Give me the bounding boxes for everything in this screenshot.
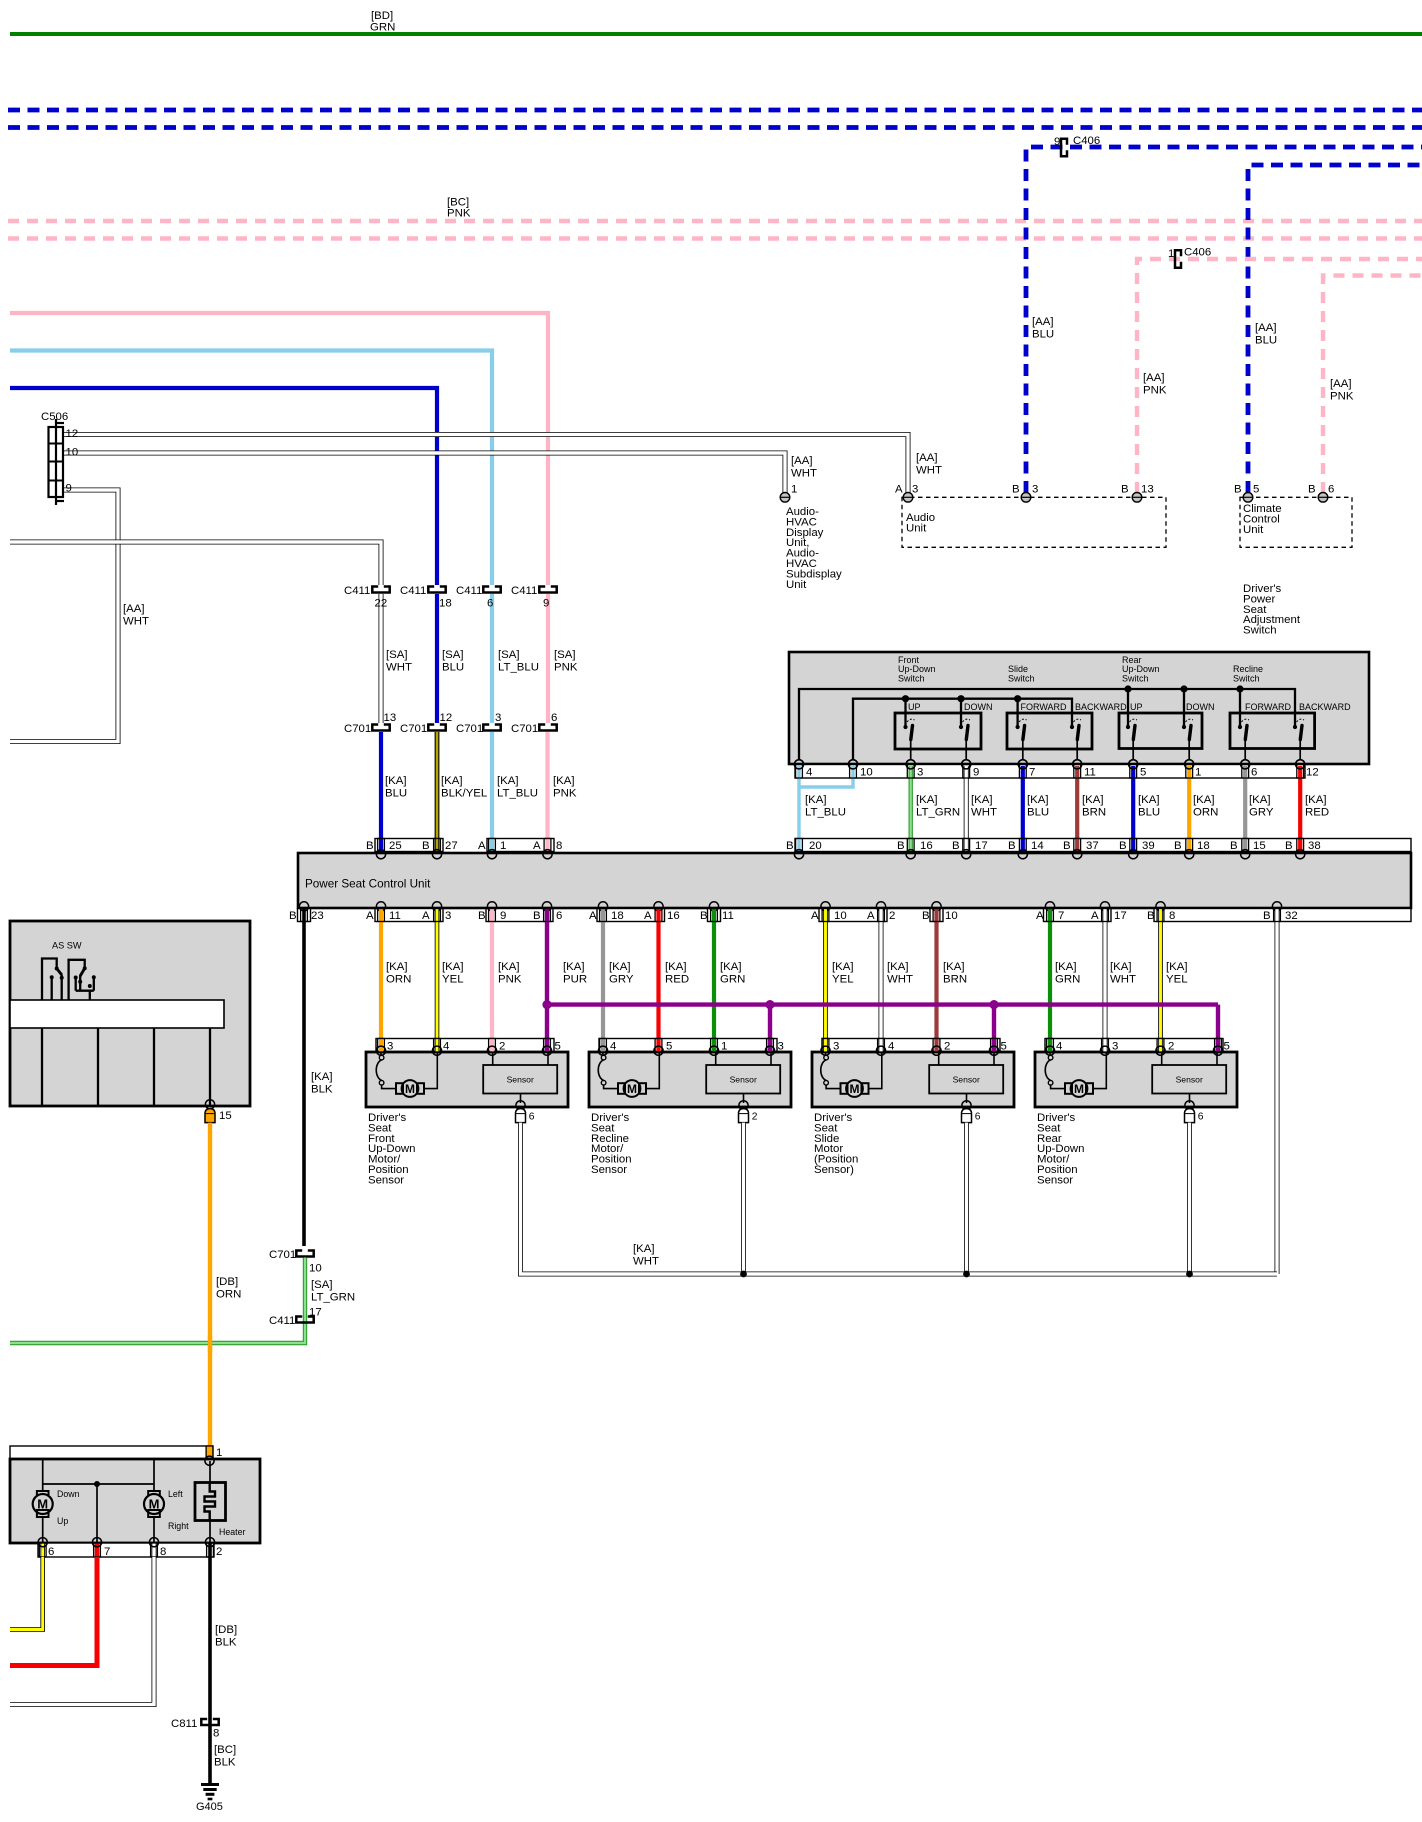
wire [KA] WHT A2 to motor3 pin 4 [879, 909, 884, 1053]
svg-text:3: 3 [495, 712, 501, 724]
svg-text:B: B [422, 840, 430, 852]
svg-text:6: 6 [551, 712, 557, 724]
switch sub-box slide [1007, 713, 1092, 749]
wire PNK solid feed from left [10, 313, 548, 585]
svg-text:Unit: Unit [906, 523, 927, 535]
svg-text:Switch: Switch [1233, 673, 1260, 683]
wire [KA] WHT A17 to motor4 pin 3 [1103, 909, 1108, 1053]
svg-text:4: 4 [443, 1041, 449, 1053]
svg-text:C406: C406 [1073, 135, 1100, 147]
svg-text:[KA]: [KA] [497, 775, 519, 787]
svg-text:B: B [289, 910, 297, 922]
svg-text:[AA]: [AA] [1330, 378, 1352, 390]
svg-text:G405: G405 [196, 1801, 223, 1813]
svg-text:A: A [589, 910, 597, 922]
svg-text:[AA]: [AA] [916, 452, 938, 464]
svg-text:6: 6 [529, 1112, 535, 1123]
switch sub-box recline [1230, 713, 1315, 749]
box Driver's Power Seat Adjustment Switch [789, 652, 1369, 764]
wire [SA] BLU C411-18 to C701-12 [435, 594, 439, 723]
PSCU bottom pin slots [301, 909, 1281, 922]
svg-text:8: 8 [556, 840, 562, 852]
wire RED pin7 to left [10, 1557, 97, 1666]
svg-text:C701: C701 [400, 723, 427, 735]
svg-text:BLU: BLU [1032, 328, 1054, 340]
svg-text:WHT: WHT [916, 464, 942, 476]
svg-text:1: 1 [1168, 248, 1174, 260]
svg-text:B: B [952, 840, 960, 852]
box AS SW [10, 921, 250, 1106]
svg-text:BLK: BLK [311, 1083, 333, 1095]
svg-text:FORWARD: FORWARD [1021, 702, 1067, 712]
svg-text:BLU: BLU [442, 661, 464, 673]
svg-text:2: 2 [216, 1546, 222, 1558]
svg-text:ORN: ORN [216, 1288, 241, 1300]
svg-text:YEL: YEL [832, 973, 854, 985]
svg-text:C701: C701 [344, 723, 371, 735]
svg-text:B: B [478, 910, 486, 922]
connector C701 pin 6 [539, 725, 556, 731]
svg-text:LT_BLU: LT_BLU [498, 661, 539, 673]
svg-text:C411: C411 [400, 585, 426, 597]
svg-text:9: 9 [543, 598, 549, 610]
svg-text:B: B [1121, 484, 1129, 496]
svg-text:7: 7 [1029, 767, 1035, 779]
wire [AA] BLU dashed branch to audio unit B3 [1026, 147, 1422, 493]
svg-text:B: B [1263, 910, 1271, 922]
svg-text:BLU: BLU [1255, 334, 1277, 346]
wire [KA] PNK C701-6 to PSCU A8 [545, 732, 549, 850]
svg-text:Sensor: Sensor [1037, 1174, 1073, 1186]
svg-text:20: 20 [809, 840, 822, 852]
wire [SA] WHT C411-22 to C701-13 [379, 594, 384, 723]
svg-text:Unit: Unit [1243, 524, 1264, 536]
svg-text:[KA]: [KA] [1305, 794, 1327, 806]
connector C411 pin 22 [372, 587, 389, 593]
wire WHT pin8 to left [10, 1557, 154, 1705]
svg-text:38: 38 [1308, 840, 1321, 852]
svg-text:[BC]: [BC] [214, 1744, 236, 1756]
connector C701 pin 3 [483, 725, 500, 731]
svg-text:3: 3 [778, 1041, 784, 1053]
svg-text:2: 2 [752, 1112, 758, 1123]
svg-text:WHT: WHT [123, 615, 149, 627]
svg-text:B: B [1234, 484, 1242, 496]
svg-text:A: A [895, 484, 903, 496]
pin slots and numbers box 3 [821, 1039, 1007, 1056]
wire [KA] BLK B23 down [302, 909, 306, 1247]
svg-text:[KA]: [KA] [1166, 961, 1188, 973]
svg-text:17: 17 [1114, 910, 1127, 922]
svg-text:37: 37 [1086, 840, 1099, 852]
svg-text:C506: C506 [41, 411, 68, 423]
junction dots bus1 [1124, 685, 1131, 692]
wire [KA] YEL B8 to motor4 pin 2 [1158, 909, 1163, 1053]
wire internal bus pin4 to rear/recline commons [799, 689, 1295, 759]
pin B5 climate unit [1243, 493, 1253, 503]
wire BLU solid feed from left [10, 388, 437, 585]
svg-text:ORN: ORN [386, 973, 411, 985]
svg-text:5: 5 [1001, 1041, 1007, 1053]
svg-text:B: B [1308, 484, 1316, 496]
svg-text:C411: C411 [269, 1315, 295, 1327]
wire ORN crossing [208, 1335, 212, 1352]
heated seat internal wiring [43, 1459, 210, 1543]
svg-text:Left: Left [168, 1489, 183, 1499]
purple junction dots [542, 1000, 551, 1009]
connector C411 pin 6 [483, 587, 500, 593]
connector C701 pin 13 [372, 725, 389, 731]
svg-text:3: 3 [387, 1041, 393, 1053]
recline FORWARD switch [1238, 689, 1250, 769]
wire [AA] PNK dashed branch to audio unit B13 [1137, 259, 1422, 493]
svg-text:1: 1 [791, 484, 797, 496]
svg-text:12: 12 [1306, 767, 1319, 779]
junction dots bus2 [902, 695, 909, 702]
svg-text:6: 6 [48, 1546, 54, 1558]
svg-text:[KA]: [KA] [971, 794, 993, 806]
wire [KA] GRN B11 to motor2 pin 1 [712, 909, 716, 1053]
wire [KA] RED pin12 to B38 [1298, 766, 1302, 851]
pin slots and numbers box 1 [376, 1039, 560, 1056]
svg-text:[KA]: [KA] [609, 961, 631, 973]
rear DOWN switch [1182, 689, 1194, 769]
motor symbol box 4 [1045, 1050, 1106, 1097]
svg-text:B: B [1147, 910, 1155, 922]
svg-text:[BD]: [BD] [371, 10, 393, 22]
svg-text:[KA]: [KA] [441, 775, 463, 787]
svg-text:WHT: WHT [791, 467, 817, 479]
svg-text:1: 1 [216, 1447, 222, 1459]
svg-text:[SA]: [SA] [554, 649, 576, 661]
svg-text:12: 12 [440, 712, 453, 724]
wire [DB] BLK pin2 to ground [208, 1557, 212, 1783]
svg-text:39: 39 [1142, 840, 1155, 852]
svg-text:8: 8 [213, 1728, 219, 1740]
svg-text:8: 8 [160, 1546, 166, 1558]
svg-text:GRN: GRN [1055, 973, 1080, 985]
svg-text:[KA]: [KA] [311, 1071, 333, 1083]
svg-text:17: 17 [975, 840, 988, 852]
svg-text:[KA]: [KA] [1055, 961, 1077, 973]
svg-text:PNK: PNK [553, 787, 577, 799]
svg-text:[KA]: [KA] [805, 794, 827, 806]
svg-text:ORN: ORN [1193, 806, 1218, 818]
svg-text:7: 7 [104, 1546, 110, 1558]
svg-text:11: 11 [1084, 767, 1096, 779]
wire [KA] GRY A18 to motor2 pin 4 [601, 909, 605, 1053]
svg-text:Switch: Switch [898, 673, 925, 683]
heater element [195, 1483, 226, 1521]
wire [KA] RED A16 to motor2 pin 5 [656, 909, 660, 1053]
svg-text:B: B [1119, 840, 1127, 852]
svg-text:[AA]: [AA] [1143, 372, 1165, 384]
svg-text:Switch: Switch [1122, 673, 1149, 683]
svg-text:[AA]: [AA] [1255, 322, 1277, 334]
svg-text:15: 15 [1253, 840, 1266, 852]
pin B6 climate unit [1318, 493, 1328, 503]
svg-text:[KA]: [KA] [1193, 794, 1215, 806]
svg-text:3: 3 [445, 910, 451, 922]
svg-text:M: M [405, 1082, 415, 1096]
svg-text:FORWARD: FORWARD [1245, 702, 1291, 712]
wire [KA] BLU pin7 to B14 [1021, 766, 1025, 851]
svg-text:[KA]: [KA] [720, 961, 742, 973]
svg-text:14: 14 [1031, 840, 1044, 852]
wire [KA] WHT sensor returns bus [521, 1123, 1278, 1274]
svg-text:5: 5 [1253, 484, 1259, 496]
svg-text:Sensor: Sensor [591, 1164, 627, 1176]
svg-text:15: 15 [219, 1110, 232, 1122]
svg-text:18: 18 [439, 598, 452, 610]
svg-text:Sensor: Sensor [1176, 1075, 1203, 1085]
svg-text:GRY: GRY [609, 973, 634, 985]
svg-text:C406: C406 [1184, 247, 1211, 259]
svg-text:4: 4 [888, 1041, 894, 1053]
white wire C506 pin 12 to audio A3 [63, 435, 908, 493]
sensor box 3 [929, 1050, 1003, 1123]
junction dots white bus [740, 1271, 747, 1278]
svg-text:8: 8 [1169, 910, 1175, 922]
heated seat top connector strip [10, 1446, 213, 1459]
wire [KA] BRN pin11 to B37 [1075, 766, 1079, 851]
box Power Seat Control Unit [298, 853, 1411, 908]
PSCU bottom pin circles [299, 902, 1281, 911]
svg-text:B: B [1012, 484, 1020, 496]
svg-text:PNK: PNK [554, 661, 578, 673]
svg-text:10: 10 [945, 910, 958, 922]
wires through PSCU top housings [379, 839, 383, 852]
svg-text:1: 1 [500, 840, 506, 852]
svg-text:B: B [366, 840, 374, 852]
svg-text:B: B [533, 910, 541, 922]
front DOWN switch [959, 699, 971, 769]
wire [KA] WHT B32 to white bus [1275, 909, 1280, 1275]
svg-text:27: 27 [445, 840, 458, 852]
wire [KA] ORN pin1 to B18 [1187, 766, 1191, 851]
svg-text:17: 17 [309, 1307, 322, 1319]
svg-text:Up: Up [57, 1516, 68, 1526]
svg-text:PUR: PUR [563, 973, 587, 985]
svg-text:PNK: PNK [447, 208, 471, 220]
switch strip pin circles redraw [794, 760, 1304, 769]
svg-text:4: 4 [806, 767, 812, 779]
svg-text:B: B [1230, 840, 1238, 852]
switch connector strip [795, 765, 1305, 779]
svg-text:[SA]: [SA] [386, 649, 408, 661]
svg-text:GRN: GRN [720, 973, 745, 985]
pin slots and numbers box 2 [598, 1039, 783, 1056]
svg-text:4: 4 [610, 1041, 616, 1053]
slide FORWARD switch [1016, 699, 1028, 769]
ground G405 [201, 1785, 219, 1800]
wire internal bus pin10 to front/slide commons [853, 699, 1072, 759]
bottom pin slots [39, 1543, 46, 1557]
wire [KA] BLK/YEL C701-12 to PSCU B27 [435, 732, 440, 850]
svg-text:16: 16 [920, 840, 933, 852]
svg-text:6: 6 [1198, 1112, 1204, 1123]
wire [KA] PNK B9 to sensor pin 2 [490, 909, 494, 1053]
wire [BD] GRN horizontal trunk [10, 32, 1422, 36]
svg-text:B: B [1174, 840, 1182, 852]
svg-text:[AA]: [AA] [123, 603, 145, 615]
svg-text:10: 10 [66, 447, 79, 459]
pin A3 audio unit [903, 493, 913, 503]
svg-text:A: A [422, 910, 430, 922]
svg-text:9: 9 [66, 483, 72, 495]
wire [BC] PNK dashed trunk 1 [8, 219, 1422, 223]
svg-text:[KA]: [KA] [665, 961, 687, 973]
svg-text:LT_GRN: LT_GRN [916, 806, 960, 818]
svg-text:BRN: BRN [943, 973, 967, 985]
svg-text:BLK/YEL: BLK/YEL [441, 787, 487, 799]
svg-text:Heater: Heater [219, 1527, 245, 1537]
wire [KA] PUR B6 to purple bus [545, 909, 549, 1053]
svg-text:LT_GRN: LT_GRN [311, 1291, 355, 1303]
svg-text:32: 32 [1285, 910, 1298, 922]
svg-text:Unit: Unit [786, 579, 807, 591]
svg-text:1: 1 [1195, 767, 1201, 779]
svg-text:LT_BLU: LT_BLU [497, 787, 538, 799]
svg-text:PNK: PNK [1330, 390, 1354, 402]
connector C406 pin 9 [1061, 139, 1067, 156]
svg-text:9: 9 [973, 767, 979, 779]
svg-text:6: 6 [975, 1112, 981, 1123]
svg-text:25: 25 [389, 840, 402, 852]
svg-text:A: A [1036, 910, 1044, 922]
svg-text:C811: C811 [171, 1718, 197, 1730]
svg-text:GRN: GRN [370, 22, 395, 34]
svg-text:[KA]: [KA] [832, 961, 854, 973]
svg-text:6: 6 [1328, 484, 1334, 496]
svg-text:22: 22 [375, 598, 388, 610]
pin B3 audio unit [1021, 493, 1031, 503]
unit Audio-HVAC Display pin 1 [780, 493, 790, 503]
svg-text:Sensor: Sensor [368, 1174, 404, 1186]
svg-text:BLK: BLK [215, 1636, 237, 1648]
svg-text:B: B [786, 840, 794, 852]
pin 15 cylinder [205, 1109, 215, 1123]
svg-text:Switch: Switch [1243, 625, 1277, 637]
svg-text:C411: C411 [456, 585, 482, 597]
wire [KA] LT_BLU C701-3 to PSCU A1 [490, 732, 494, 850]
svg-text:23: 23 [311, 910, 324, 922]
svg-text:PNK: PNK [1143, 384, 1167, 396]
svg-text:M: M [850, 1082, 860, 1096]
pin 1 slot [206, 1446, 213, 1459]
svg-text:[KA]: [KA] [633, 1243, 655, 1255]
connector C406 pin 1 [1175, 250, 1181, 267]
wire YEL pin6 to left [10, 1557, 43, 1630]
svg-text:6: 6 [556, 910, 562, 922]
connector C411 pin 17 [296, 1317, 313, 1323]
slide BACKWARD switch [1070, 719, 1082, 769]
svg-text:[KA]: [KA] [1082, 794, 1104, 806]
svg-text:2: 2 [944, 1041, 950, 1053]
svg-text:B: B [1008, 840, 1016, 852]
svg-text:A: A [644, 910, 652, 922]
connector C411 pin 9 [539, 587, 556, 593]
svg-text:A: A [533, 840, 541, 852]
svg-text:A: A [478, 840, 486, 852]
motor unit box 1 [376, 1039, 554, 1053]
svg-text:C701: C701 [269, 1249, 296, 1261]
svg-text:B: B [922, 910, 930, 922]
svg-text:A: A [867, 910, 875, 922]
svg-text:Power Seat Control Unit: Power Seat Control Unit [305, 878, 431, 891]
svg-text:2: 2 [889, 910, 895, 922]
svg-text:10: 10 [860, 767, 873, 779]
svg-text:18: 18 [1197, 840, 1210, 852]
wire [DB] ORN pin15 to heated seat pin 1 [208, 1123, 212, 1446]
svg-text:Sensor: Sensor [507, 1075, 534, 1085]
wire [AA] PNK dashed branch to climate unit B6 [1323, 276, 1422, 494]
svg-text:C411: C411 [511, 585, 537, 597]
svg-text:B: B [1063, 840, 1071, 852]
pin 1 circle [205, 1456, 214, 1465]
wire [AA] BLU dashed branch to climate unit B5 [1248, 165, 1422, 493]
svg-text:PNK: PNK [498, 973, 522, 985]
heated seat bottom strip [38, 1543, 214, 1557]
white wire C506 pin 10 to display unit pin 1 [63, 453, 785, 493]
box Audio Unit (dashed) [902, 497, 1166, 547]
PSCU top connector housings [375, 839, 1411, 852]
wire [KA] WHT pin9 to B17 [964, 766, 969, 851]
svg-text:UP: UP [908, 702, 921, 712]
PSCU top pin slots [378, 839, 1304, 852]
purple bus B6 to motor pins 5/3/5/5 [547, 1002, 1218, 1006]
svg-text:[KA]: [KA] [563, 961, 585, 973]
motor unit box 3 [822, 1039, 1000, 1053]
svg-text:[KA]: [KA] [916, 794, 938, 806]
svg-text:BLU: BLU [1027, 806, 1049, 818]
pin B13 audio unit [1132, 493, 1142, 503]
white wire [AA] WHT from left to C411 22 [10, 542, 381, 585]
recline BACKWARD switch [1293, 719, 1305, 769]
svg-text:YEL: YEL [1166, 973, 1188, 985]
svg-text:A: A [366, 910, 374, 922]
PSCU bottom connector housings [298, 909, 1412, 922]
svg-text:UP: UP [1130, 702, 1143, 712]
svg-text:5: 5 [1140, 767, 1146, 779]
connector C701 pin 12 [428, 725, 445, 731]
sensor box 1 [483, 1050, 557, 1123]
bottom pin wires through strip [40, 1543, 45, 1557]
svg-text:11: 11 [389, 910, 401, 922]
pin 15 circle [205, 1100, 214, 1109]
svg-text:[KA]: [KA] [385, 775, 407, 787]
svg-text:6: 6 [1251, 767, 1257, 779]
pin circle switch pin 4 [794, 760, 803, 769]
svg-text:3: 3 [1032, 484, 1038, 496]
wire [KA] BLU C701-13 to PSCU B25 [379, 732, 383, 850]
svg-text:13: 13 [1141, 484, 1154, 496]
wire [KA] YEL A3 to motor pin 4 [435, 909, 440, 1053]
svg-text:BACKWARD: BACKWARD [1299, 702, 1351, 712]
svg-text:[KA]: [KA] [386, 961, 408, 973]
svg-text:DOWN: DOWN [1186, 702, 1215, 712]
svg-text:[SA]: [SA] [311, 1279, 333, 1291]
svg-text:5: 5 [666, 1041, 672, 1053]
wire BLU dashed trunk 2 [8, 125, 1422, 130]
motor up-down (heated seat box) [33, 1491, 53, 1517]
wire LT_BLU solid feed from left [10, 351, 492, 586]
wire [KA] GRN A7 to motor4 pin 4 [1048, 909, 1052, 1053]
svg-text:A: A [811, 910, 819, 922]
svg-text:Sensor: Sensor [730, 1075, 757, 1085]
wire [KA] ORN A11 to motor pin 3 [379, 909, 383, 1053]
connector C506 [49, 419, 65, 505]
